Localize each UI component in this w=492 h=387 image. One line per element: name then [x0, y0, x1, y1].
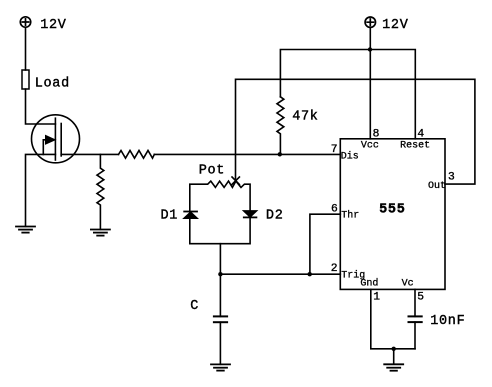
resistor Load (box symbol) [22, 70, 29, 89]
wire: right 12V terminal down to Vcc rail [369, 28, 371, 50]
wire: Trig net to pin 2 [220, 273, 340, 275]
svg-text:C: C [190, 299, 199, 314]
svg-text:Vcc: Vcc [361, 141, 379, 152]
transistor Q1 power MOSFET [32, 115, 80, 163]
svg-text:Thr: Thr [341, 210, 359, 222]
ground symbol (C) [211, 364, 230, 370]
pot wiper arrowhead (X) [232, 177, 239, 184]
svg-text:Out: Out [428, 181, 446, 192]
svg-text:8: 8 [373, 128, 380, 140]
svg-text:555: 555 [379, 202, 405, 217]
node: junction dot (gnd bus) [392, 347, 396, 351]
ground symbol (R2) [91, 230, 110, 236]
wire: pot tap down to Trig net [219, 244, 221, 275]
wire: pin 1 Gnd down and across [371, 289, 415, 348]
svg-text:D1: D1 [161, 208, 179, 223]
capacitor C (timing) [214, 274, 227, 364]
svg-text:12V: 12V [40, 18, 67, 33]
svg-text:Reset: Reset [400, 141, 430, 152]
node: junction dot (Thr link on Trig net) [308, 272, 312, 276]
svg-text:47k: 47k [292, 109, 318, 124]
diode D2 (conducts downward) [244, 211, 257, 218]
capacitor C2 10nF [409, 316, 422, 348]
node: junction dot (12V rail) [368, 47, 372, 51]
resistor R2 (gate pulldown, zigzag) [97, 154, 104, 229]
potentiometer Pot (body with steering diode bridge) [190, 181, 250, 244]
svg-text:12V: 12V [382, 18, 409, 33]
ground symbol (555 / 10nF) [384, 364, 403, 370]
node: junction dot (tap / Trig / C) [218, 272, 222, 276]
svg-text:Load: Load [35, 76, 70, 91]
wire: Load bottom to MOSFET drain [26, 89, 56, 124]
power +12V supply terminal (left) [20, 17, 30, 27]
svg-text:3: 3 [448, 171, 455, 183]
svg-text:7: 7 [331, 144, 338, 156]
wire: left 12V terminal down to Load [25, 27, 27, 70]
diode D1 (conducts upward) [184, 212, 197, 219]
resistor R3 47k (zigzag) [277, 97, 284, 155]
svg-text:5: 5 [417, 291, 424, 303]
svg-text:Vc: Vc [402, 279, 414, 290]
wire: pin 6 Thr link down to Trig net [310, 214, 340, 274]
wire: pin 8 Vcc drop [369, 50, 371, 139]
svg-text:4: 4 [417, 128, 424, 140]
power +12V supply terminal (right) [365, 17, 375, 27]
ground symbol (source) [16, 227, 35, 233]
svg-text:10nF: 10nF [430, 314, 465, 329]
wire: R1 to junction and on to pin 7 Dis [154, 153, 340, 155]
svg-text:1: 1 [373, 291, 380, 303]
wire: gnd bus stub down [393, 349, 395, 364]
IC U1 555 timer (body) [340, 139, 445, 290]
wire: MOSFET gate to series resistor R1 [61, 153, 118, 155]
svg-text:2: 2 [331, 263, 338, 275]
svg-text:Dis: Dis [341, 150, 359, 162]
node: junction dot (47k / Dis net) [278, 152, 282, 156]
resistor R1 (gate series, zigzag) [119, 151, 155, 159]
svg-text:Gnd: Gnd [360, 278, 378, 290]
svg-text:6: 6 [331, 204, 338, 216]
wire: pin 5 Vc down to 10nF [414, 289, 416, 316]
svg-text:D2: D2 [266, 208, 284, 223]
wire: Vcc rail (47k top to pin 4 Reset) [280, 50, 415, 139]
wire: Out feedback (pin 3 up and across to pot wiper) [236, 79, 475, 184]
svg-text:Pot: Pot [199, 164, 225, 179]
wire: MOSFET source to ground [26, 154, 56, 226]
